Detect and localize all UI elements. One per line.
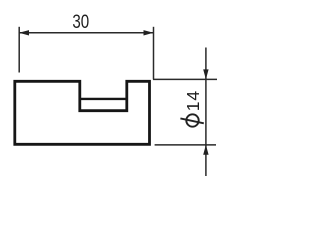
svg-text:30: 30 — [72, 10, 89, 32]
svg-text:14: 14 — [183, 90, 203, 111]
